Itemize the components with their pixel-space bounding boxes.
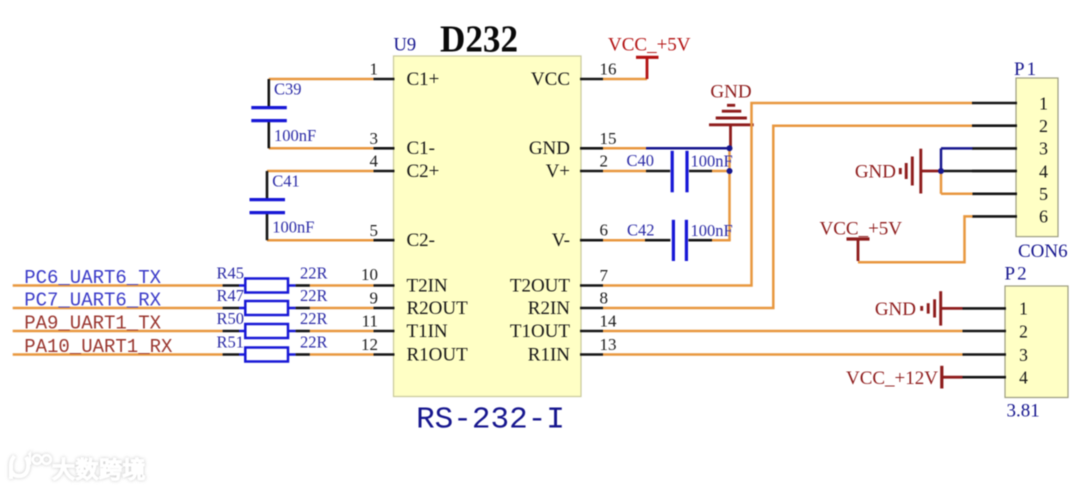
svg-text:C40: C40 (627, 151, 655, 170)
svg-text:R51: R51 (216, 332, 244, 351)
svg-text:3: 3 (1039, 139, 1048, 159)
svg-text:VCC: VCC (531, 69, 570, 90)
svg-text:大数跨境: 大数跨境 (52, 457, 146, 483)
svg-text:22R: 22R (300, 264, 328, 283)
svg-text:GND: GND (855, 162, 896, 183)
svg-text:C1+: C1+ (407, 69, 440, 90)
svg-text:PC7_UART6_RX: PC7_UART6_RX (24, 289, 161, 311)
svg-text:10: 10 (361, 265, 378, 284)
svg-text:9: 9 (370, 289, 379, 308)
svg-text:PA9_UART1_TX: PA9_UART1_TX (24, 312, 161, 334)
svg-text:12: 12 (361, 335, 378, 354)
svg-text:16: 16 (600, 60, 617, 79)
svg-text:C1-: C1- (407, 138, 436, 159)
svg-text:7: 7 (600, 266, 609, 285)
svg-text:R1OUT: R1OUT (407, 344, 469, 365)
svg-text:22R: 22R (300, 309, 328, 328)
svg-text:T2OUT: T2OUT (510, 275, 571, 296)
svg-text:R47: R47 (216, 286, 244, 305)
svg-text:5: 5 (370, 221, 379, 240)
svg-text:R45: R45 (216, 263, 244, 282)
svg-text:C2-: C2- (407, 230, 436, 251)
svg-text:2: 2 (1019, 321, 1028, 341)
svg-text:GND: GND (875, 299, 916, 320)
svg-text:C2+: C2+ (407, 161, 440, 182)
svg-text:T1OUT: T1OUT (510, 321, 571, 342)
svg-text:11: 11 (362, 312, 378, 331)
svg-text:22R: 22R (300, 286, 328, 305)
svg-text:100nF: 100nF (272, 218, 314, 237)
svg-text:4: 4 (1039, 161, 1048, 181)
svg-text:5: 5 (1039, 184, 1048, 204)
svg-text:GND: GND (710, 82, 751, 103)
svg-text:R1IN: R1IN (528, 344, 571, 365)
svg-text:4: 4 (370, 152, 379, 171)
svg-text:6: 6 (1039, 207, 1048, 227)
svg-text:PA10_UART1_RX: PA10_UART1_RX (24, 336, 173, 358)
svg-text:V-: V- (552, 230, 570, 251)
svg-text:2: 2 (1039, 116, 1048, 136)
svg-text:1: 1 (1019, 299, 1028, 319)
svg-text:T2IN: T2IN (407, 275, 448, 296)
svg-text:VCC_+12V: VCC_+12V (846, 368, 938, 389)
svg-text:R2IN: R2IN (528, 298, 571, 319)
svg-text:C41: C41 (272, 172, 300, 191)
svg-text:V+: V+ (546, 161, 570, 182)
svg-text:1: 1 (370, 60, 379, 79)
svg-text:T1IN: T1IN (407, 321, 448, 342)
svg-text:GND: GND (529, 138, 570, 159)
svg-text:CON6: CON6 (1018, 241, 1068, 262)
svg-text:C39: C39 (274, 80, 302, 99)
svg-text:RS-232-I: RS-232-I (416, 403, 565, 438)
svg-text:100nF: 100nF (691, 151, 733, 170)
svg-text:VCC_+5V: VCC_+5V (820, 219, 903, 240)
svg-text:1: 1 (1039, 93, 1048, 113)
svg-text:6: 6 (600, 221, 609, 240)
svg-text:P1: P1 (1014, 59, 1038, 80)
svg-text:C42: C42 (627, 221, 655, 240)
svg-text:4: 4 (1019, 368, 1028, 388)
svg-text:14: 14 (600, 312, 618, 331)
svg-text:100nF: 100nF (274, 126, 316, 145)
svg-text:PC6_UART6_TX: PC6_UART6_TX (24, 267, 161, 289)
svg-text:15: 15 (600, 129, 617, 148)
svg-text:D232: D232 (440, 19, 518, 61)
svg-text:3.81: 3.81 (1007, 401, 1040, 422)
svg-text:13: 13 (600, 335, 617, 354)
svg-text:P2: P2 (1005, 264, 1029, 285)
svg-text:U9: U9 (394, 36, 417, 56)
svg-text:R50: R50 (216, 309, 244, 328)
svg-text:3: 3 (1019, 345, 1028, 365)
svg-text:R2OUT: R2OUT (407, 298, 469, 319)
svg-text:8: 8 (600, 289, 609, 308)
svg-text:VCC_+5V: VCC_+5V (608, 34, 691, 55)
svg-text:3: 3 (370, 129, 379, 148)
svg-text:100nF: 100nF (691, 221, 733, 240)
svg-text:22R: 22R (300, 333, 328, 352)
svg-text:2: 2 (600, 152, 609, 171)
